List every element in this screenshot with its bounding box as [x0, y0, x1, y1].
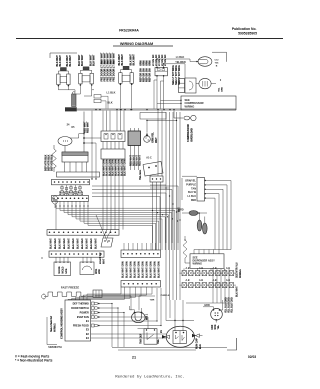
svg-text:BLK WHT: BLK WHT	[81, 54, 84, 66]
svg-text:FAST FREEZE: FAST FREEZE	[61, 286, 79, 290]
svg-text:TAN: TAN	[191, 187, 196, 190]
svg-text:DOOR SWITCH: DOOR SWITCH	[71, 307, 89, 310]
svg-text:BLK WHT ORN: BLK WHT ORN	[131, 261, 133, 278]
svg-text:Publication No.: Publication No.	[232, 27, 257, 31]
svg-text:WIRING: WIRING	[240, 269, 242, 278]
svg-text:EVAP FAN: EVAP FAN	[77, 316, 89, 319]
svg-text:A-B: A-B	[186, 267, 190, 270]
svg-text:WHT: WHT	[155, 137, 158, 143]
svg-text:ORN/YEL: ORN/YEL	[185, 180, 196, 183]
svg-text:WIRING: WIRING	[185, 104, 195, 108]
svg-text:BLK WHT ORN: BLK WHT ORN	[151, 261, 153, 278]
svg-text:BLK: BLK	[107, 101, 112, 105]
svg-text:GRD: GRD	[204, 304, 210, 307]
svg-text:GRD: GRD	[222, 86, 224, 91]
svg-text:A1-C: A1-C	[146, 157, 152, 160]
svg-text:BLK WHT ORN: BLK WHT ORN	[147, 261, 149, 278]
svg-text:EUT: EUT	[179, 207, 181, 212]
svg-text:TML BLK: TML BLK	[140, 169, 142, 179]
svg-text:RED: RED	[191, 199, 196, 202]
svg-text:BLK WHT ORN: BLK WHT ORN	[135, 261, 137, 278]
svg-text:MOLD: MOLD	[63, 266, 65, 273]
svg-text:BLK WHT ORN: BLK WHT ORN	[143, 261, 145, 278]
svg-text:02/03: 02/03	[248, 355, 256, 359]
svg-text:MO 1: MO 1	[146, 313, 149, 320]
svg-text:Rendered by LeadVenture, Inc.: Rendered by LeadVenture, Inc.	[115, 375, 185, 380]
svg-text:A-B: A-B	[186, 279, 190, 282]
svg-text:BLK WHT ORN: BLK WHT ORN	[104, 159, 106, 176]
svg-text:WTR: WTR	[96, 268, 98, 273]
svg-text:BLK WHT: BLK WHT	[55, 237, 57, 248]
svg-text:L1 BLK: L1 BLK	[107, 91, 116, 95]
svg-text:BLK WHT: BLK WHT	[69, 237, 71, 248]
svg-text:BLK WHT: BLK WHT	[60, 237, 62, 248]
svg-text:RED WHT: RED WHT	[131, 154, 133, 165]
svg-text:BLK: BLK	[200, 344, 202, 349]
svg-text:YEL/RED: YEL/RED	[175, 61, 186, 64]
svg-text:POWER: POWER	[80, 311, 89, 314]
svg-text:5995385905: 5995385905	[238, 32, 257, 36]
svg-text:BLK WHT: BLK WHT	[87, 237, 89, 248]
svg-text:A-B: A-B	[226, 267, 230, 270]
svg-text:A-B: A-B	[226, 279, 230, 282]
svg-text:WIRING DIAGRAM: WIRING DIAGRAM	[120, 42, 153, 46]
svg-text:BLK WHT ORN: BLK WHT ORN	[139, 261, 141, 278]
svg-text:BLK WHT ORN: BLK WHT ORN	[119, 159, 121, 176]
svg-text:HTR: HTR	[66, 268, 68, 273]
svg-text:BLK WHT: BLK WHT	[64, 237, 66, 248]
svg-text:REF DR SW: REF DR SW	[149, 67, 152, 81]
svg-text:BLK WHT ORN: BLK WHT ORN	[116, 159, 118, 176]
svg-text:RED WHT: RED WHT	[87, 121, 90, 133]
svg-text:BLK WHT: BLK WHT	[121, 54, 124, 66]
svg-text:RUN CAP: RUN CAP	[196, 338, 199, 349]
svg-text:FAN: FAN	[211, 324, 214, 329]
svg-text:S09538377H: S09538377H	[48, 347, 62, 349]
svg-text:SEE USER INT: SEE USER INT	[51, 315, 53, 332]
svg-text:RED WHT: RED WHT	[140, 154, 142, 165]
svg-text:BLU W: BLU W	[188, 191, 197, 194]
svg-text:ORN: ORN	[149, 60, 152, 66]
svg-text:TMR DEF: TMR DEF	[141, 333, 143, 344]
svg-text:BLK WHT: BLK WHT	[51, 237, 53, 248]
svg-text:WIRING: WIRING	[193, 262, 202, 266]
svg-text:YEL BLK GRD: YEL BLK GRD	[226, 297, 228, 313]
svg-text:HTR: HTR	[99, 269, 101, 274]
svg-text:FRESH FOOD: FRESH FOOD	[73, 324, 89, 327]
svg-text:BLK WHT ORN: BLK WHT ORN	[127, 261, 129, 278]
svg-text:BLK WHT ORN: BLK WHT ORN	[110, 159, 112, 176]
svg-text:BLK WHT ORN: BLK WHT ORN	[123, 261, 125, 278]
svg-text:L1 BLU: L1 BLU	[187, 195, 196, 198]
svg-text:SEE WTR VLV: SEE WTR VLV	[237, 262, 239, 278]
svg-text:BLK WHT: BLK WHT	[96, 237, 98, 248]
svg-text:WIRING: WIRING	[55, 323, 57, 332]
svg-text:YEL: YEL	[219, 87, 221, 92]
svg-text:* = Non-Illustrated Parts: * = Non-Illustrated Parts	[15, 359, 53, 363]
svg-text:RED WHT: RED WHT	[134, 154, 136, 165]
svg-text:OVERLOAD: OVERLOAD	[191, 128, 194, 142]
svg-text:BLK WHT: BLK WHT	[92, 54, 95, 66]
svg-text:BLK WHT ORN: BLK WHT ORN	[122, 159, 124, 176]
svg-text:BLK WHT: BLK WHT	[59, 55, 62, 67]
svg-text:BLK WHT: BLK WHT	[78, 237, 80, 248]
svg-text:RED WHT: RED WHT	[137, 154, 139, 165]
svg-text:LT DIV KIT: LT DIV KIT	[159, 54, 161, 66]
svg-text:BLK WHT: BLK WHT	[82, 237, 84, 248]
svg-text:BLK WHT: BLK WHT	[113, 52, 116, 64]
svg-text:PURPLE: PURPLE	[161, 295, 170, 297]
svg-text:MTR: MTR	[215, 324, 217, 329]
svg-text:A-B: A-B	[199, 267, 203, 270]
svg-text:A-B: A-B	[199, 279, 203, 282]
svg-text:TMR: TMR	[150, 300, 155, 302]
svg-text:YEL BLK GRD: YEL BLK GRD	[232, 297, 234, 313]
svg-text:DOOR: DOOR	[59, 266, 61, 273]
svg-text:BLK WHT: BLK WHT	[132, 54, 135, 66]
svg-text:YEL: YEL	[218, 324, 220, 329]
svg-text:BLK WHT: BLK WHT	[73, 237, 75, 248]
svg-text:WHT: WHT	[104, 258, 106, 264]
svg-text:BLK WHT ORN: BLK WHT ORN	[125, 159, 127, 176]
svg-text:BLK WHT: BLK WHT	[69, 55, 72, 67]
svg-text:21: 21	[132, 356, 136, 360]
svg-text:BLK WHT: BLK WHT	[237, 285, 239, 296]
svg-text:DEF HTR BLK: DEF HTR BLK	[51, 154, 54, 170]
svg-text:BLK WHT ORN: BLK WHT ORN	[107, 159, 109, 176]
svg-text:BLK WHT ORN: BLK WHT ORN	[155, 261, 157, 278]
svg-text:PURPLE: PURPLE	[186, 183, 196, 186]
svg-text:DEF THERMO: DEF THERMO	[73, 302, 89, 305]
svg-text:TML: TML	[158, 338, 160, 343]
svg-text:CONTROL HOUSING ASSY: CONTROL HOUSING ASSY	[61, 308, 64, 339]
svg-text:L1 BLK: L1 BLK	[176, 56, 185, 59]
svg-text:BLK WHT: BLK WHT	[91, 237, 93, 248]
svg-text:FRS23KR4A: FRS23KR4A	[119, 28, 139, 32]
svg-text:LT DIV KIT: LT DIV KIT	[153, 54, 155, 66]
svg-text:BLK WHT ORN: BLK WHT ORN	[159, 261, 161, 278]
svg-text:BLK WHT ORN: BLK WHT ORN	[113, 159, 115, 176]
